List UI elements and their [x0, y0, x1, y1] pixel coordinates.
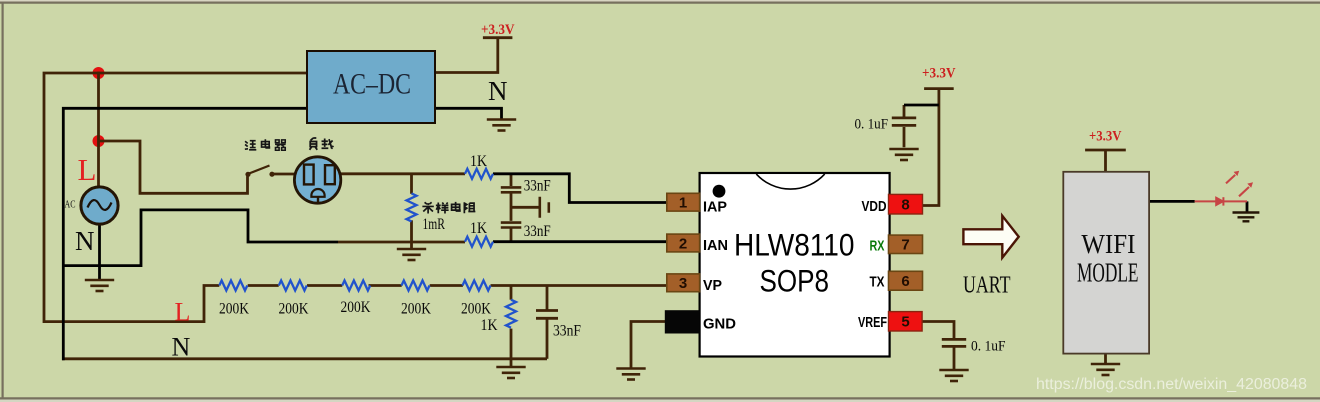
svg-text:GND: GND — [703, 317, 736, 333]
svg-text:1K: 1K — [481, 317, 499, 334]
svg-text:200K: 200K — [341, 299, 372, 316]
load socket slot left — [304, 165, 314, 185]
pin 6 box — [889, 271, 923, 290]
pin 2 box — [667, 234, 700, 252]
wire L junction column — [97, 72, 100, 141]
label 采样电阻 (sampling resistor) — [422, 202, 475, 214]
svg-text:WIFI: WIFI — [1081, 229, 1135, 259]
LED D1 — [1195, 197, 1247, 205]
wire 1K vertical bottom stem through N to ground — [510, 329, 513, 367]
svg-text:SOP8: SOP8 — [760, 263, 830, 299]
wire sampling resistor top stem — [410, 174, 413, 194]
pin 1 box — [667, 193, 700, 211]
wire N branch to IAN path — [63, 210, 338, 266]
ground (AC source) — [85, 280, 114, 291]
wire 200K chain segments — [248, 284, 667, 287]
wire VREF to cap — [922, 322, 954, 370]
wire AC-DC right N to ground — [435, 108, 502, 119]
label 负载 (load) — [310, 138, 334, 150]
wire WIFI to LED — [1149, 200, 1195, 203]
svg-text:33nF: 33nF — [553, 323, 581, 340]
svg-text:IAN: IAN — [703, 238, 728, 254]
load socket P1 — [294, 157, 340, 203]
svg-text:200K: 200K — [461, 301, 492, 318]
wire N: AC-DC left down around to caps — [63, 108, 307, 360]
UART arrow — [963, 216, 1018, 258]
relay K1 contacts — [245, 172, 274, 177]
AC source V1 — [81, 187, 118, 224]
capacitor 33nF (VP filter) — [536, 311, 558, 319]
wire N bottom run — [62, 357, 547, 360]
svg-text:TX: TX — [870, 275, 885, 291]
svg-text:RX: RX — [870, 239, 885, 255]
wire +3.3V to AC-DC — [435, 38, 512, 73]
signal reference symbol between caps — [540, 197, 549, 218]
svg-text:0. 1uF: 0. 1uF — [855, 117, 889, 133]
ground (divider 1K) — [496, 367, 525, 378]
load socket earth hole — [311, 189, 324, 197]
svg-text:7: 7 — [901, 237, 909, 254]
wire 1K vertical top stem — [510, 286, 513, 300]
svg-text:1K: 1K — [470, 220, 488, 237]
svg-text:8: 8 — [901, 197, 909, 214]
svg-text:0. 1uF: 0. 1uF — [971, 339, 1006, 355]
capacitor 0.1uF (VDD) — [892, 118, 916, 126]
resistor 1K upper — [465, 169, 493, 179]
AC-DC converter block — [307, 51, 435, 123]
wire to AC source top — [97, 141, 100, 188]
ground (VDD cap) — [889, 149, 918, 160]
wire 1K2 to IAN pin2 — [493, 240, 667, 243]
wire load to 1K — [338, 172, 465, 175]
svg-text:N: N — [75, 226, 95, 256]
wire 0.1uF top cap stems — [903, 105, 906, 147]
load socket slot right — [325, 165, 335, 184]
wire 33nF3 top stem — [546, 286, 549, 311]
svg-text:UART: UART — [963, 272, 1011, 299]
ground (AC-DC N) — [487, 120, 516, 131]
wire L to relay — [99, 141, 248, 193]
LED light arrows — [1226, 171, 1253, 197]
wire N lower segment brown part to 1K2 — [338, 241, 465, 244]
pin 7 box — [889, 235, 923, 253]
wire sampling resistor bottom stem to junction — [410, 220, 413, 242]
wire WIFI +3.3V — [1085, 150, 1126, 172]
svg-text:AC–DC: AC–DC — [333, 68, 411, 101]
capacitor 33nF upper — [501, 187, 522, 192]
node L junction dot 1 — [93, 67, 105, 79]
wire GND pin to ground — [631, 322, 668, 370]
svg-text:L: L — [175, 298, 191, 327]
wire L top: AC-DC left to frame left, down, to 200K chain riser — [44, 73, 307, 322]
svg-text:https://blog.csdn.net/weixin_4: https://blog.csdn.net/weixin_42080848 — [1036, 376, 1307, 393]
svg-text:3: 3 — [679, 275, 687, 292]
relay K1 lever — [249, 166, 270, 174]
wire relay to load — [272, 173, 298, 176]
svg-text:L: L — [78, 152, 97, 187]
pin 5 box — [889, 312, 923, 331]
svg-text:33nF: 33nF — [524, 223, 551, 240]
svg-text:HLW8110: HLW8110 — [734, 227, 855, 263]
svg-text:IAP: IAP — [703, 200, 727, 216]
svg-text:1mR: 1mR — [423, 216, 446, 233]
svg-text:200K: 200K — [279, 301, 310, 318]
capacitor 0.1uF (VREF) — [942, 339, 966, 346]
resistor 1K (divider, vertical) — [506, 300, 516, 328]
resistor sampling 1mR (vertical) — [407, 193, 417, 221]
wire caps column at 511 — [510, 174, 513, 242]
svg-text:6: 6 — [901, 273, 909, 290]
svg-text:VDD: VDD — [862, 199, 887, 215]
chip notch — [756, 174, 824, 189]
pin GND box — [665, 310, 700, 333]
svg-text:VREF: VREF — [858, 315, 887, 331]
svg-text:+3.3V: +3.3V — [481, 22, 515, 38]
svg-text:+3.3V: +3.3V — [1089, 129, 1122, 145]
ground (VREF cap) — [939, 370, 968, 381]
wire 33nF3 bottom stem — [546, 319, 549, 359]
svg-text:200K: 200K — [401, 301, 432, 318]
label 继电器 (relay) — [245, 139, 286, 150]
ground (WIFI module) — [1091, 364, 1120, 375]
svg-text:MODLE: MODLE — [1077, 258, 1139, 288]
wire sampling junction to ground — [410, 242, 413, 249]
wire WIFI bottom ground stem — [1104, 354, 1107, 364]
chip U1 HLW8110 body — [700, 173, 890, 357]
resistor 200K R2 — [279, 281, 307, 291]
svg-text:200K: 200K — [219, 301, 250, 318]
node L junction dot 2 — [93, 135, 105, 147]
wire VDD pin8 to +3.3V — [923, 89, 954, 206]
svg-text:1: 1 — [679, 195, 687, 212]
wire LED to ground — [1246, 201, 1249, 212]
wire AC source to ground — [98, 222, 101, 280]
resistor 200K R4 — [402, 281, 430, 291]
WIFI module block — [1063, 172, 1149, 354]
svg-text:2: 2 — [679, 236, 687, 253]
svg-text:1K: 1K — [470, 153, 488, 170]
resistor 200K R5 — [463, 281, 491, 291]
capacitor 33nF lower — [501, 223, 522, 228]
wire 0.1uF branch black — [904, 104, 939, 107]
ground (GND pin) — [616, 369, 645, 380]
pin 3 box — [667, 274, 700, 292]
svg-text:N: N — [172, 333, 191, 362]
wire 1K1 to IAP pin1 — [493, 174, 667, 203]
resistor 200K R3 — [342, 281, 370, 291]
resistor 1K lower — [465, 237, 493, 247]
resistor 200K R1 — [219, 281, 247, 291]
chip pin1 marker dot — [713, 185, 726, 198]
pin 8 box — [889, 194, 923, 214]
svg-text:5: 5 — [901, 314, 909, 331]
svg-text:+3.3V: +3.3V — [922, 66, 956, 82]
svg-text:N: N — [488, 76, 508, 106]
ground (LED) — [1233, 213, 1260, 222]
wire mid reference tap — [511, 206, 539, 209]
svg-text:33nF: 33nF — [524, 178, 551, 195]
ground (sampling resistor) — [397, 249, 426, 260]
svg-text:AC: AC — [65, 200, 76, 211]
svg-text:VP: VP — [703, 278, 722, 294]
